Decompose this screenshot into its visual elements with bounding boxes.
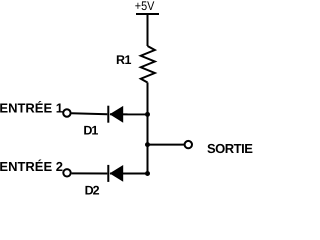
svg-text:+5V: +5V [135, 0, 155, 13]
svg-text:ENTRÉE 2: ENTRÉE 2 [0, 159, 63, 174]
svg-text:R1: R1 [116, 53, 132, 67]
svg-text:D2: D2 [85, 183, 100, 195]
svg-text:SORTIE: SORTIE [207, 141, 253, 156]
svg-text:ENTRÉE 1: ENTRÉE 1 [0, 101, 63, 116]
svg-text:D1: D1 [83, 123, 98, 137]
